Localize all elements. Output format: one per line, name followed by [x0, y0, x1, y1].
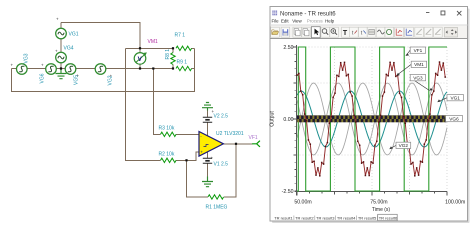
- svg-text:Time (s): Time (s): [372, 207, 390, 213]
- svg-text:VG3: VG3: [413, 75, 423, 80]
- svg-text:VF1: VF1: [414, 48, 423, 53]
- svg-text:75.00m: 75.00m: [370, 199, 387, 205]
- svg-text:Edit: Edit: [281, 19, 289, 24]
- svg-text:50.00m: 50.00m: [294, 199, 311, 205]
- svg-text:VM1: VM1: [414, 62, 424, 67]
- svg-text:Output: Output: [270, 111, 276, 127]
- svg-text:VG6: VG6: [449, 116, 459, 121]
- svg-text:V1 2.5: V1 2.5: [214, 162, 229, 168]
- svg-text:+: +: [211, 156, 214, 161]
- svg-text:Noname - TR result6: Noname - TR result6: [280, 11, 336, 17]
- svg-text:+: +: [11, 63, 14, 68]
- svg-text:R9 1: R9 1: [177, 60, 188, 66]
- svg-text:TR result1: TR result1: [274, 215, 293, 220]
- svg-text:VF1: VF1: [249, 135, 258, 141]
- svg-text:TR result3: TR result3: [316, 215, 335, 220]
- svg-text:TR result4: TR result4: [337, 215, 356, 220]
- svg-text:VG1: VG1: [69, 32, 79, 38]
- svg-text:VM1: VM1: [148, 39, 159, 45]
- svg-text:VG6: VG6: [40, 73, 46, 83]
- svg-text:+: +: [55, 49, 58, 54]
- svg-text:2.50: 2.50: [283, 45, 293, 51]
- svg-text:TR result6: TR result6: [379, 215, 398, 220]
- svg-text:Process: Process: [307, 19, 324, 24]
- svg-text:VG2: VG2: [399, 143, 409, 148]
- svg-text:R8 1: R8 1: [165, 49, 171, 60]
- svg-text:+: +: [212, 109, 215, 114]
- svg-text:TR result5: TR result5: [358, 215, 377, 220]
- svg-text:VG3: VG3: [24, 53, 30, 63]
- svg-text:File: File: [272, 19, 280, 24]
- svg-text:VG1: VG1: [451, 95, 461, 100]
- svg-text:R3 10k: R3 10k: [159, 126, 175, 132]
- svg-text:0.00: 0.00: [283, 117, 293, 123]
- svg-text:R1 1MEG: R1 1MEG: [206, 205, 228, 211]
- svg-text:-2.50: -2.50: [282, 189, 294, 195]
- svg-text:+: +: [200, 150, 203, 155]
- svg-text:+: +: [56, 17, 59, 22]
- svg-text:R7 1: R7 1: [175, 33, 186, 39]
- svg-text:R2 10k: R2 10k: [159, 152, 175, 158]
- svg-text:100.00m: 100.00m: [445, 199, 465, 205]
- svg-text:VG4: VG4: [64, 46, 74, 52]
- svg-text:+: +: [41, 63, 44, 68]
- svg-text:U2 TLV3201: U2 TLV3201: [216, 131, 244, 137]
- svg-text:Help: Help: [325, 19, 335, 24]
- svg-text:TR result2: TR result2: [295, 215, 314, 220]
- svg-text:+: +: [110, 74, 113, 79]
- svg-text:View: View: [292, 19, 302, 24]
- svg-text:+: +: [77, 73, 80, 78]
- svg-text:T: T: [343, 30, 348, 37]
- svg-text:V2 2.5: V2 2.5: [214, 114, 229, 120]
